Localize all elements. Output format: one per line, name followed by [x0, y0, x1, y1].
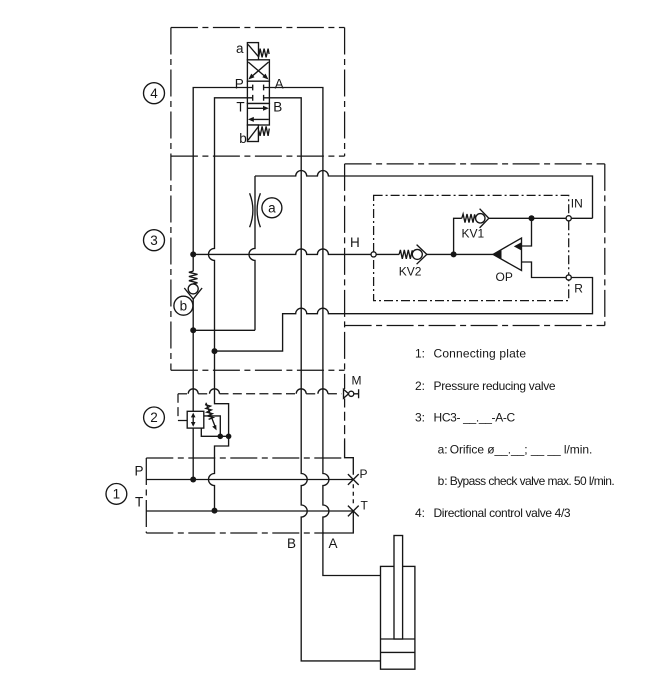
junction H x KV1 branch: [451, 251, 457, 257]
label circle 2: [144, 407, 165, 428]
svg-text:3:: 3:: [415, 411, 425, 425]
plug X at plate P port: [348, 474, 359, 485]
section 1 connecting plate dash-dot box: [146, 458, 344, 533]
pressure reducing valve box: [187, 411, 204, 428]
wire plate T line: [146, 510, 353, 512]
junction KV1 x OP pilot: [529, 215, 535, 221]
section 3 bottom boundary: [171, 369, 345, 371]
cylinder piston: [381, 639, 415, 652]
wire H line: P junction right to OP apex with hops over B,A: [193, 249, 399, 254]
solenoid b diagonal: [248, 127, 258, 140]
junction reducing valve pilot x drain: [218, 434, 224, 440]
pressure reducing valve flow arrow: [191, 413, 196, 427]
svg-text:KV1: KV1: [462, 226, 485, 240]
plug X at plate T port: [348, 506, 359, 517]
label circle 4: [144, 83, 165, 104]
solenoid b box: [247, 125, 258, 142]
wire top line: orifice corner to block top edge and right edge down to IN level: [255, 171, 593, 219]
wire T plug connector to A line: [323, 511, 353, 533]
wire orifice bottom branch to P: [193, 329, 255, 331]
section 3 right extension dashed box: [345, 164, 605, 441]
wire plate P line: [146, 479, 353, 481]
check valve KV2: ball: [412, 249, 422, 259]
check valve KV2: seat: [417, 245, 427, 265]
section 2 dashed box left edge: [178, 394, 187, 421]
label circle 1: [106, 484, 127, 505]
svg-text:B: B: [287, 536, 296, 551]
pressure reducing valve pilot line: [204, 416, 221, 436]
svg-text:b: b: [239, 131, 247, 146]
svg-text:T: T: [361, 499, 369, 513]
check valve KV1: seat: [480, 209, 489, 228]
OP flow arrow: [493, 250, 502, 259]
junction P x H: [190, 251, 196, 257]
OP pilot valve: main triangle: [493, 238, 522, 271]
check valve KV2: spring: [399, 250, 413, 259]
label circle b: [174, 296, 193, 315]
svg-text:OP: OP: [496, 270, 513, 284]
svg-text:Orifice ø__.__; __ __ l/min.: Orifice ø__.__; __ __ l/min.: [450, 443, 593, 457]
svg-text:4: 4: [150, 86, 158, 101]
legend text: [415, 347, 615, 520]
junction P x orifice branch: [190, 327, 196, 333]
solenoid a diagonal: [248, 44, 258, 56]
wire P lower segment: [192, 299, 194, 480]
check valve b: seat: [184, 288, 202, 299]
valve closed-center position blocked ports: [248, 85, 270, 101]
port H circle: [371, 252, 376, 257]
svg-text:a: a: [268, 201, 276, 216]
section 2 dashed box top edge with hops over P,T,B,A wires: [178, 389, 342, 394]
check valve KV1: ball: [476, 214, 485, 223]
svg-text:M: M: [352, 373, 362, 387]
svg-text:4:: 4:: [415, 506, 425, 520]
svg-text:T: T: [135, 495, 143, 510]
svg-text:T: T: [236, 100, 244, 115]
wire OP pilot line: [522, 218, 532, 246]
svg-text:1:: 1:: [415, 347, 425, 361]
check valve b: spring: [189, 271, 198, 284]
cylinder rod: [394, 536, 403, 640]
check valve KV1: spring: [462, 214, 475, 223]
label circle a: [262, 198, 282, 218]
svg-text:A: A: [329, 536, 338, 551]
check valve b: ball: [188, 284, 198, 294]
svg-text:1: 1: [113, 487, 121, 502]
svg-text:B: B: [273, 100, 282, 115]
svg-text:b:: b:: [438, 474, 448, 488]
pressure reducing valve adjust arrow: [206, 403, 217, 431]
junction T x plate T line: [212, 508, 218, 514]
port IN circle: [566, 216, 571, 221]
pressure reducing valve drain line: [201, 428, 228, 436]
pressure reducing valve spring: [205, 405, 213, 420]
section 3 left boundary: [170, 28, 172, 371]
wire KV1 line: H junction up, through KV1 to IN and block right edge: [454, 218, 462, 254]
valve crossed-arrows position: [248, 62, 268, 80]
plate right edge: P/T external port column: [345, 441, 354, 507]
svg-text:KV2: KV2: [399, 264, 422, 278]
svg-text:2:: 2:: [415, 379, 425, 393]
label circle 3: [144, 230, 165, 251]
svg-text:P: P: [135, 464, 144, 479]
svg-text:A: A: [275, 77, 284, 92]
port M test point: [344, 389, 359, 398]
orifice a: [250, 193, 261, 227]
svg-text:R: R: [574, 282, 583, 296]
OP pilot arrow: [514, 242, 522, 250]
svg-text:Connecting plate: Connecting plate: [434, 347, 527, 361]
wire return line: T junction to R port via block bottom edge: [215, 262, 593, 351]
svg-text:3: 3: [150, 233, 158, 248]
wire T: valve T port down with hop at H line, jog around reducing valve, hop at P line, to plate T line: [209, 98, 248, 511]
junction T x return line: [212, 348, 218, 354]
port R circle: [566, 275, 571, 280]
svg-text:Bypass check valve max. 50 l/m: Bypass check valve max. 50 l/min.: [450, 474, 615, 488]
svg-text:a:: a:: [438, 443, 448, 457]
spring b: [259, 126, 270, 135]
solenoid a box: [247, 43, 258, 60]
svg-text:P: P: [360, 467, 368, 481]
junction reducing valve drain x T jog: [226, 434, 232, 440]
HC3 cartridge inner dash-dot box: [374, 195, 569, 300]
junction P x plate P line: [190, 477, 196, 483]
spring a: [259, 49, 269, 58]
svg-text:Directional control valve 4/3: Directional control valve 4/3: [434, 506, 571, 520]
wire P: valve P port down to plate P line (through check valve b): [193, 88, 247, 272]
svg-text:2: 2: [150, 410, 158, 425]
cylinder body: [381, 566, 415, 669]
svg-text:IN: IN: [571, 197, 583, 211]
wire B: valve B port down to cylinder piston side: [269, 98, 380, 661]
directional control valve 4/3 body: [247, 60, 269, 125]
svg-text:HC3- __.__-A-C: HC3- __.__-A-C: [434, 411, 516, 425]
svg-text:P: P: [235, 77, 244, 92]
wire orifice branch: top line corner down through orifice to lower branch: [249, 176, 255, 330]
section 4 boundary box (dash-dot): [171, 28, 345, 157]
svg-text:b: b: [180, 299, 188, 314]
svg-text:Pressure reducing valve: Pressure reducing valve: [434, 379, 556, 393]
wire A: valve A port down to cylinder rod side: [269, 88, 380, 576]
svg-text:a: a: [236, 41, 244, 56]
valve parallel-arrows position: [248, 106, 269, 122]
svg-text:H: H: [350, 235, 360, 250]
